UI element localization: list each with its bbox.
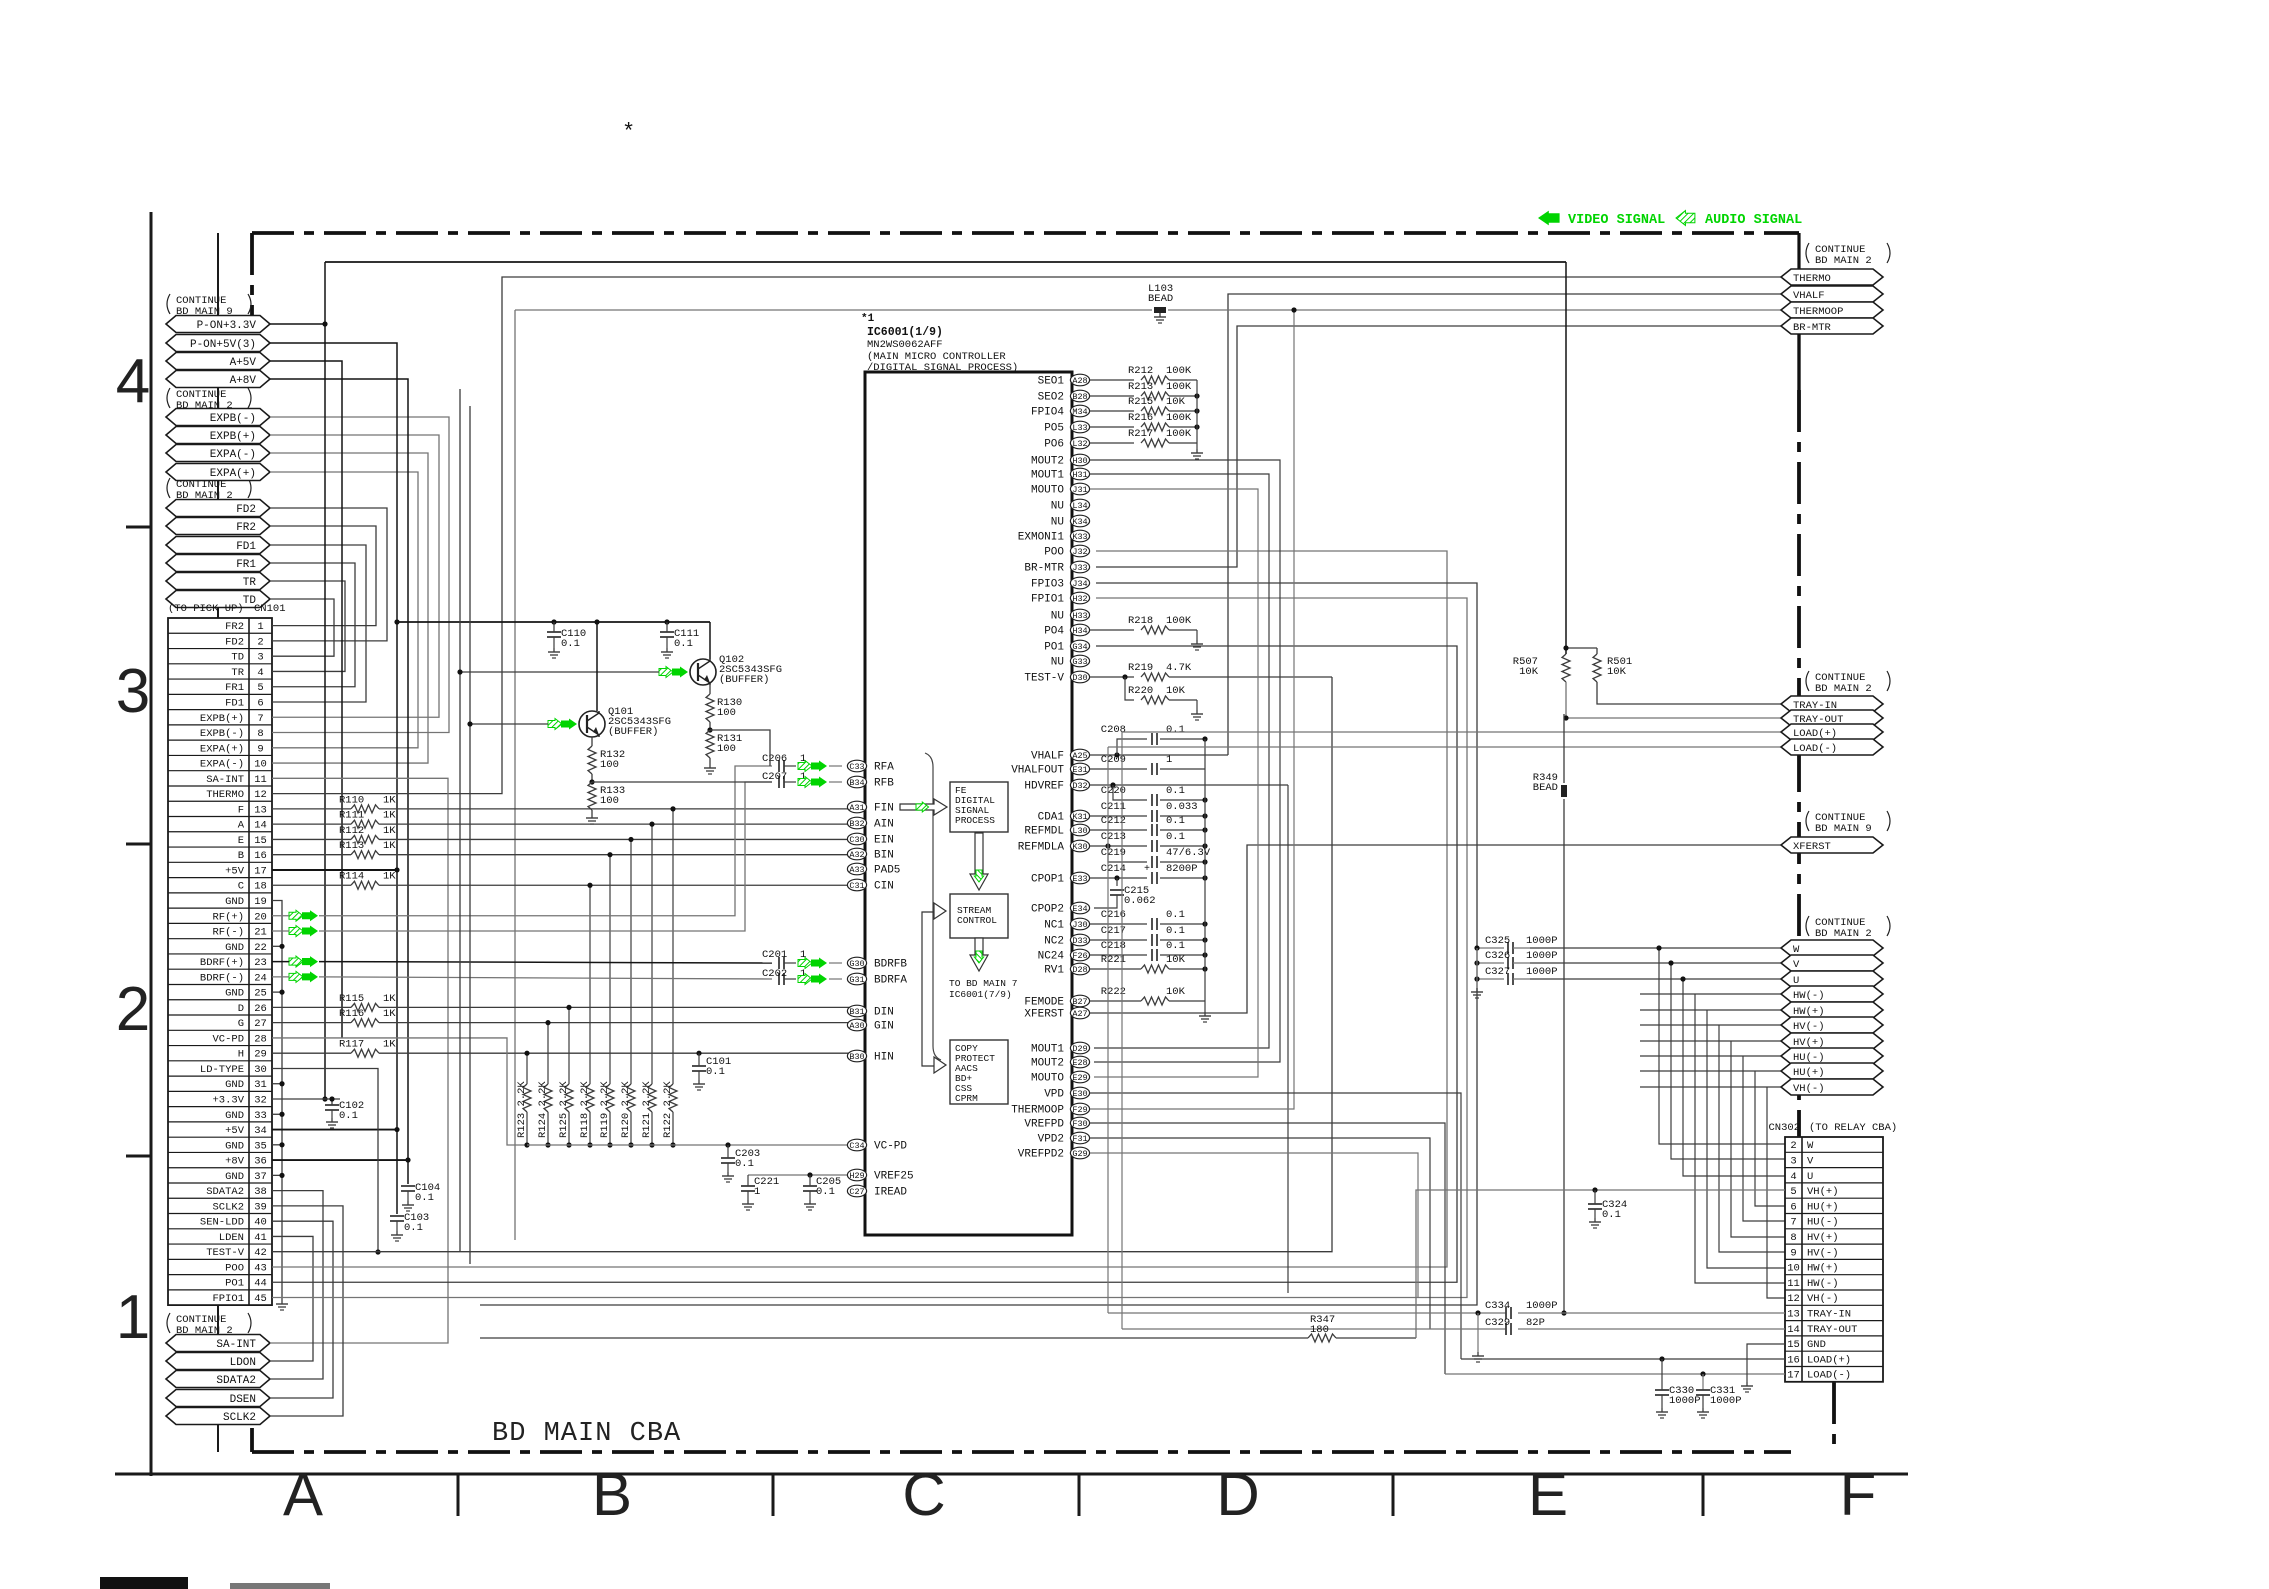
wire SA-INT [270, 778, 448, 1343]
svg-text:0.1: 0.1 [1602, 1209, 1621, 1221]
svg-text:GND: GND [225, 1110, 244, 1122]
svg-text:4: 4 [116, 347, 150, 416]
svg-text:IC6001(1/9): IC6001(1/9) [867, 326, 943, 339]
resistor R347 180 [480, 1190, 1785, 1342]
wire bus P-ON+3.3V top [325, 261, 1566, 263]
svg-text:1000P: 1000P [1526, 1300, 1558, 1312]
node XFERST (flag) [1781, 837, 1883, 853]
resistor R111 1K [272, 810, 852, 829]
svg-text:PO4: PO4 [1044, 626, 1064, 638]
svg-text:12: 12 [254, 789, 267, 801]
wire [1640, 1087, 1785, 1298]
wire +5V pin17 [272, 867, 400, 872]
resistor R122 2.2K [662, 806, 677, 1147]
svg-text:A30: A30 [849, 1021, 864, 1031]
svg-text:C327: C327 [1485, 966, 1510, 978]
pin B32 AIN [847, 817, 893, 830]
pin K30 REFMDLA [1018, 840, 1090, 853]
svg-text:16: 16 [254, 850, 267, 862]
pin G29 VREFPD2 [1018, 1147, 1090, 1160]
svg-text:R113: R113 [339, 840, 364, 852]
svg-text:HW(-): HW(-) [1807, 1278, 1839, 1290]
pin C34 VC-PD [847, 1139, 907, 1152]
svg-text:D29: D29 [1072, 1044, 1087, 1054]
svg-text:29: 29 [254, 1049, 267, 1061]
svg-text:1: 1 [1166, 754, 1172, 766]
svg-text:3: 3 [116, 657, 150, 726]
node HV(-) (flag) [1781, 1017, 1883, 1033]
svg-text:G30: G30 [849, 959, 864, 969]
capacitor C326 1000P [1474, 950, 1557, 969]
svg-text:B32: B32 [849, 819, 864, 829]
svg-text:37: 37 [254, 1171, 267, 1183]
capacitor C331 1000P [1696, 1374, 1742, 1418]
svg-text:A33: A33 [849, 865, 864, 875]
svg-text:F31: F31 [1072, 1134, 1087, 1144]
svg-text:DIN: DIN [874, 1007, 894, 1019]
svg-text:0.1: 0.1 [1166, 785, 1185, 797]
mark asterisk [622, 120, 635, 145]
svg-text:SEO2: SEO2 [1038, 392, 1064, 404]
wire RF(-) [272, 782, 772, 931]
svg-text:CPOP2: CPOP2 [1031, 904, 1064, 916]
svg-text:R116: R116 [339, 1008, 364, 1020]
svg-text:THERMOOP: THERMOOP [1011, 1105, 1064, 1117]
ground [1741, 1382, 1753, 1392]
svg-text:19: 19 [254, 896, 267, 908]
svg-text:D33: D33 [1072, 936, 1087, 946]
node V (flag) [1781, 955, 1883, 971]
svg-text:B27: B27 [1072, 997, 1087, 1007]
svg-text:*1: *1 [861, 313, 875, 325]
svg-text:EXPA(+): EXPA(+) [200, 743, 244, 755]
svg-text:100: 100 [600, 795, 619, 807]
svg-text:J32: J32 [1072, 547, 1087, 557]
svg-text:R120 2.2K: R120 2.2K [620, 1081, 632, 1138]
svg-text:R117: R117 [339, 1039, 364, 1051]
svg-text:14: 14 [1787, 1324, 1800, 1336]
svg-text:0.062: 0.062 [1124, 895, 1156, 907]
svg-text:CDA1: CDA1 [1038, 812, 1065, 824]
node VHALF (flag) [1781, 286, 1883, 302]
svg-text:W: W [1807, 1140, 1814, 1152]
svg-text:R122 2.2K: R122 2.2K [662, 1081, 674, 1138]
svg-text:MOUT2: MOUT2 [1031, 1058, 1064, 1070]
wire [270, 1206, 343, 1416]
svg-text:HU(-): HU(-) [1807, 1217, 1839, 1229]
pin M34 FPIO4 [1031, 405, 1090, 418]
pin H34 PO4 [1044, 624, 1089, 637]
resistor R119 2.2K [599, 852, 614, 1148]
svg-text:LOAD(-): LOAD(-) [1807, 1370, 1851, 1382]
resistor R501 10K [1563, 645, 1632, 682]
wire PO1 bus [272, 646, 1457, 1282]
node LOAD(-) (flag) [1781, 739, 1883, 755]
pin L30 REFMDL [1024, 824, 1089, 837]
svg-text:R123 2.2K: R123 2.2K [516, 1081, 528, 1138]
note TO BD MAIN 7 IC6001(7/9) [949, 978, 1017, 1000]
svg-text:0.1: 0.1 [816, 1186, 835, 1198]
svg-text:L30: L30 [1072, 826, 1087, 836]
resistor R130 100 [706, 685, 742, 733]
svg-text:PO1: PO1 [225, 1278, 244, 1290]
svg-text:(TO PICK UP): (TO PICK UP) [168, 603, 244, 615]
svg-text:4: 4 [1790, 1171, 1796, 1183]
svg-text:100K: 100K [1166, 381, 1192, 393]
node FD1 (flag) [166, 537, 270, 554]
svg-text:+3.3V: +3.3V [212, 1095, 244, 1107]
capacitor C111 0.1 [660, 622, 699, 658]
svg-text:LOAD(-): LOAD(-) [1793, 743, 1837, 755]
svg-text:47/6.3V: 47/6.3V [1166, 847, 1211, 859]
wire VPD [1090, 1093, 1461, 1359]
svg-text:10K: 10K [1607, 666, 1627, 678]
svg-text:SEO1: SEO1 [1038, 376, 1065, 388]
svg-text:1000P: 1000P [1526, 950, 1558, 962]
svg-text:EXMONI1: EXMONI1 [1018, 532, 1065, 544]
svg-text:J31: J31 [1072, 485, 1087, 495]
pin F26 NC24 [1038, 949, 1090, 962]
node A+5V (flag) [166, 353, 270, 370]
pin A25 VHALF [1031, 749, 1090, 762]
transistor Q101 2SC5343SFG [579, 706, 671, 738]
svg-text:+8V: +8V [225, 1156, 245, 1168]
pin C30 EIN [847, 833, 893, 846]
svg-text:DSEN: DSEN [230, 1394, 256, 1406]
svg-text:AIN: AIN [874, 819, 894, 831]
wire Q101 emitter to RFB [592, 781, 772, 783]
svg-text:A+5V: A+5V [230, 357, 257, 369]
pin K31 CDA1 [1038, 810, 1090, 823]
svg-text:E: E [1528, 1461, 1568, 1528]
wire RF(+) [272, 766, 772, 916]
capacitor C217 0.1 [1090, 925, 1208, 946]
node LDON (flag) [166, 1353, 270, 1370]
wire [1640, 1025, 1785, 1252]
pin C31 CIN [847, 879, 893, 892]
flow arrow FE to STREAM [970, 833, 988, 890]
pin A33 PAD5 [847, 863, 900, 876]
svg-text:BDRF(+): BDRF(+) [200, 957, 244, 969]
wire pin group bracket [925, 753, 941, 1060]
resistor R131 100 [704, 730, 742, 774]
signal arrows to BDRFA [798, 974, 827, 985]
wire BDRF(+) [272, 962, 772, 963]
transistor Q102 2SC5343SFG [690, 654, 782, 686]
svg-text:FR2: FR2 [225, 621, 244, 633]
svg-text:R212: R212 [1128, 365, 1153, 377]
svg-text:BD MAIN CBA: BD MAIN CBA [492, 1419, 681, 1449]
note CONTINUE BD MAIN 2 (motor) [1806, 916, 1890, 940]
svg-text:9: 9 [257, 743, 263, 755]
svg-text:A+8V: A+8V [230, 375, 257, 387]
flow arrow STREAM down [970, 938, 988, 971]
svg-text:SDATA2: SDATA2 [206, 1186, 244, 1198]
svg-text:D30: D30 [1072, 673, 1087, 683]
svg-text:TEST-V: TEST-V [206, 1247, 245, 1259]
svg-text:R114: R114 [339, 871, 364, 883]
svg-text:NU: NU [1051, 611, 1064, 623]
svg-text:BD MAIN 2: BD MAIN 2 [1815, 683, 1872, 695]
ground [276, 1300, 288, 1310]
capacitor C101 0.1 [692, 1051, 731, 1090]
svg-text:VHALF: VHALF [1793, 290, 1825, 302]
svg-text:LOAD(+): LOAD(+) [1807, 1354, 1851, 1366]
pin E34 CPOP2 [1031, 902, 1090, 915]
svg-text:B: B [238, 850, 244, 862]
resistor R133 100 [586, 782, 625, 824]
capacitor C207 1 [762, 771, 806, 788]
svg-text:SDATA2: SDATA2 [216, 1375, 256, 1387]
svg-text:RF(+): RF(+) [212, 911, 244, 923]
note CONTINUE BD MAIN 2 (bottom) [167, 1313, 251, 1337]
svg-text:SEN-LDD: SEN-LDD [200, 1217, 244, 1229]
svg-text:0.1: 0.1 [561, 638, 580, 650]
svg-text:MOUT2: MOUT2 [1031, 456, 1064, 468]
wire BDRF(-) [272, 977, 772, 979]
pin D33 NC2 [1044, 934, 1089, 947]
svg-text:NU: NU [1051, 517, 1064, 529]
svg-text:PO6: PO6 [1044, 439, 1064, 451]
svg-text:R124 2.2K: R124 2.2K [537, 1081, 549, 1138]
svg-text:C33: C33 [849, 762, 864, 772]
svg-text:+5V: +5V [225, 1125, 245, 1137]
node SCLK2 (flag) [166, 1408, 270, 1425]
svg-text:C31: C31 [849, 881, 864, 891]
svg-text:FEMODE: FEMODE [1024, 997, 1064, 1009]
svg-text:GND: GND [225, 1079, 244, 1091]
svg-text:A28: A28 [1072, 376, 1087, 386]
svg-text:FR1: FR1 [225, 682, 244, 694]
svg-text:R217: R217 [1128, 428, 1153, 440]
label BD MAIN CBA [492, 1419, 681, 1449]
svg-text:E33: E33 [1072, 874, 1087, 884]
svg-text:L32: L32 [1072, 439, 1087, 449]
capacitor C330 1000P [1655, 1359, 1701, 1418]
svg-text:G34: G34 [1072, 642, 1087, 652]
svg-text:D32: D32 [1072, 781, 1087, 791]
svg-text:HV(-): HV(-) [1807, 1247, 1839, 1259]
capacitor C211 0.033 [1090, 801, 1208, 822]
svg-text:REFMDLA: REFMDLA [1018, 842, 1065, 854]
wire Q102 base [457, 389, 659, 1252]
svg-text:C329: C329 [1485, 1317, 1510, 1329]
pin A27 XFERST [1024, 1007, 1089, 1020]
svg-text:G33: G33 [1072, 657, 1087, 667]
svg-text:13: 13 [254, 804, 267, 816]
svg-text:A32: A32 [849, 850, 864, 860]
wire [270, 1236, 313, 1361]
svg-text:B34: B34 [849, 778, 864, 788]
pin J31 MOUTO [1031, 483, 1090, 496]
node BR-MTR (flag) [1781, 318, 1883, 334]
svg-text:15: 15 [254, 835, 267, 847]
svg-text:G31: G31 [849, 975, 864, 985]
svg-text:BEAD: BEAD [1533, 782, 1558, 794]
svg-text:H29: H29 [849, 1171, 864, 1181]
svg-text:5: 5 [257, 682, 263, 694]
pin E30 VPD [1044, 1087, 1089, 1100]
pin B30 HIN [847, 1050, 893, 1063]
svg-text:VPD2: VPD2 [1038, 1134, 1064, 1146]
svg-text:V: V [1807, 1155, 1814, 1167]
svg-text:SA-INT: SA-INT [216, 1339, 256, 1351]
svg-text:VHALFOUT: VHALFOUT [1011, 765, 1064, 777]
node HV(+) (flag) [1781, 1033, 1883, 1049]
wire Q102 collector [709, 622, 711, 659]
resistor R112 1K [272, 825, 852, 844]
svg-text:G29: G29 [1072, 1149, 1087, 1159]
pin F31 VPD2 [1038, 1132, 1090, 1145]
wire [829, 766, 842, 979]
pin G33 NU [1051, 655, 1090, 668]
svg-text:GND: GND [1807, 1339, 1826, 1351]
legend video signal arrow [1538, 211, 1560, 226]
signal arrows Q101 base [548, 719, 577, 730]
svg-text:B: B [592, 1461, 632, 1528]
wire [270, 581, 345, 671]
wire VREFPD2 [1090, 1153, 1418, 1297]
svg-text:HV(-): HV(-) [1793, 1021, 1825, 1033]
svg-text:VC-PD: VC-PD [874, 1141, 907, 1153]
resistor R120 2.2K [620, 837, 635, 1148]
svg-text:BIN: BIN [874, 850, 894, 862]
svg-text:44: 44 [254, 1278, 267, 1290]
pin B28 SEO2 [1038, 390, 1090, 403]
svg-text:4: 4 [257, 667, 263, 679]
svg-text:1000P: 1000P [1669, 1395, 1701, 1407]
svg-text:+: + [1144, 864, 1150, 875]
flow arrow into FE block [900, 799, 947, 815]
node HW(+) (flag) [1781, 1002, 1883, 1018]
svg-text:G: G [238, 1018, 244, 1030]
wire +5V rail to buffers [397, 619, 710, 624]
capacitor C212 0.1 [1090, 815, 1208, 836]
legend audio signal arrow [1676, 211, 1695, 226]
wire LOAD(-) [1108, 746, 1781, 748]
svg-text:H34: H34 [1072, 626, 1087, 636]
capacitor C218 0.1 [1090, 940, 1208, 961]
svg-text:FPIO1: FPIO1 [1031, 594, 1064, 606]
svg-text:R115: R115 [339, 993, 364, 1005]
wire TRAY-OUT [1563, 682, 1781, 721]
wire [270, 599, 334, 656]
capacitor C213 0.1 [1090, 831, 1208, 852]
svg-text:TO BD MAIN 7: TO BD MAIN 7 [949, 978, 1017, 989]
svg-text:FPIO3: FPIO3 [1031, 579, 1064, 591]
wire LD-TYPE [272, 1068, 381, 1254]
svg-text:A31: A31 [849, 803, 864, 813]
svg-text:0.1: 0.1 [404, 1222, 423, 1234]
signal arrows RF(-) [289, 926, 318, 937]
svg-text:7: 7 [257, 713, 263, 725]
note CONTINUE BD MAIN 9 [167, 294, 251, 318]
svg-text:20: 20 [254, 911, 267, 923]
pin J32 POO [1044, 545, 1089, 558]
resistor R132 100 [588, 737, 625, 785]
pin J33 BR-MTR [1024, 561, 1089, 574]
svg-text:NC1: NC1 [1044, 920, 1064, 932]
resistor R221 10K [1090, 954, 1208, 973]
svg-text:TRAY-OUT: TRAY-OUT [1807, 1324, 1857, 1336]
svg-text:1K: 1K [383, 794, 396, 806]
svg-text:E31: E31 [1072, 765, 1087, 775]
node A+8V (flag) [166, 371, 270, 388]
wire VC-PD [272, 1038, 527, 1145]
wire VPD2 [1090, 1138, 1430, 1329]
resistor R215 10K [1090, 396, 1200, 415]
IC U IC6001 (1/9) MN2WS0062AFF [861, 313, 1072, 1235]
wire ladder bus [1196, 380, 1198, 449]
svg-text:R112: R112 [339, 825, 364, 837]
svg-text:0.1: 0.1 [1166, 831, 1185, 843]
svg-text:POO: POO [1044, 547, 1064, 559]
svg-text:34: 34 [254, 1125, 267, 1137]
pin L33 PO5 [1044, 421, 1089, 434]
svg-text:VH(-): VH(-) [1807, 1293, 1839, 1305]
svg-text:K30: K30 [1072, 842, 1087, 852]
svg-text:10K: 10K [1166, 954, 1186, 966]
svg-text:14: 14 [254, 820, 267, 832]
svg-text:R111: R111 [339, 810, 364, 822]
svg-text:8200P: 8200P [1166, 863, 1198, 875]
wire THERMO [272, 277, 1781, 794]
wire [270, 472, 418, 748]
wire [270, 545, 366, 702]
svg-text:R213: R213 [1128, 381, 1153, 393]
svg-text:17: 17 [254, 865, 267, 877]
svg-text:30: 30 [254, 1064, 267, 1076]
capacitor C325 1000P [1474, 935, 1557, 954]
resistor R125 2.2K [558, 1005, 573, 1148]
wire MOUT2 pair [1090, 460, 1280, 1062]
wire flag column trunk [217, 233, 219, 1452]
svg-text:NC2: NC2 [1044, 936, 1064, 948]
svg-text:8: 8 [1790, 1232, 1796, 1244]
svg-text:9: 9 [1790, 1247, 1796, 1259]
wire TRAY-OUT line [1122, 1328, 1785, 1330]
svg-text:1: 1 [116, 1283, 150, 1352]
svg-text:CN101: CN101 [254, 603, 286, 615]
svg-text:23: 23 [254, 957, 267, 969]
pin G30 BDRFB [847, 957, 907, 970]
resistor R118 2.2K [579, 883, 594, 1148]
wire P-ON+3.3V [270, 262, 328, 1102]
pin F30 VREFPD [1024, 1117, 1089, 1130]
resistor R222 10K [1090, 986, 1205, 1005]
wire TRAY-IN line [1108, 1312, 1785, 1314]
svg-text:C: C [238, 881, 244, 893]
node SDATA2 (flag) [166, 1371, 270, 1388]
wire [270, 453, 428, 763]
node LOAD(+) (flag) [1781, 724, 1883, 740]
svg-text:D: D [1216, 1461, 1259, 1528]
pin G31 BDRFA [847, 973, 907, 986]
svg-text:BR-MTR: BR-MTR [1024, 563, 1064, 575]
svg-text:HV(+): HV(+) [1807, 1232, 1839, 1244]
svg-text:C201: C201 [762, 949, 787, 961]
block FE DIGITAL SIGNAL PROCESS [950, 782, 1008, 832]
svg-text:P-ON+5V(3): P-ON+5V(3) [190, 339, 256, 351]
svg-text:NU: NU [1051, 501, 1064, 513]
signal arrows BDRF(-) [289, 971, 318, 982]
pin H29 VREF25 [847, 1169, 913, 1182]
svg-text:R121 2.2K: R121 2.2K [641, 1081, 653, 1138]
resistor R220 10K [1125, 677, 1203, 720]
svg-text:82P: 82P [1526, 1317, 1545, 1329]
svg-text:*: * [622, 120, 635, 145]
resistor R218 100K [1090, 615, 1203, 650]
